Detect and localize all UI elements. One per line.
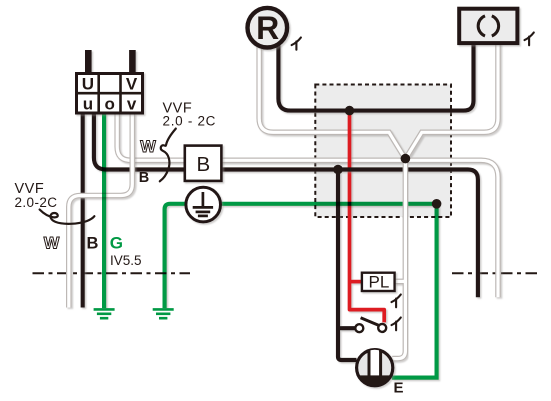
- svg-text:2.0-2C: 2.0-2C: [15, 195, 58, 210]
- svg-text:B: B: [87, 234, 99, 252]
- svg-text:W: W: [140, 138, 156, 156]
- svg-text:G: G: [110, 233, 123, 252]
- svg-text:B: B: [139, 170, 149, 186]
- svg-text:B: B: [197, 153, 211, 176]
- svg-text:IV5.5: IV5.5: [110, 253, 142, 268]
- svg-text:v: v: [127, 95, 137, 114]
- svg-text:u: u: [83, 95, 93, 114]
- svg-text:PL: PL: [369, 273, 390, 292]
- svg-text:U: U: [82, 75, 94, 94]
- svg-text:V: V: [126, 75, 138, 94]
- svg-text:W: W: [44, 234, 60, 252]
- svg-text:o: o: [105, 95, 115, 114]
- svg-text:R: R: [256, 10, 279, 46]
- svg-text:2.0 - 2C: 2.0 - 2C: [163, 113, 217, 128]
- svg-text:E: E: [394, 380, 404, 397]
